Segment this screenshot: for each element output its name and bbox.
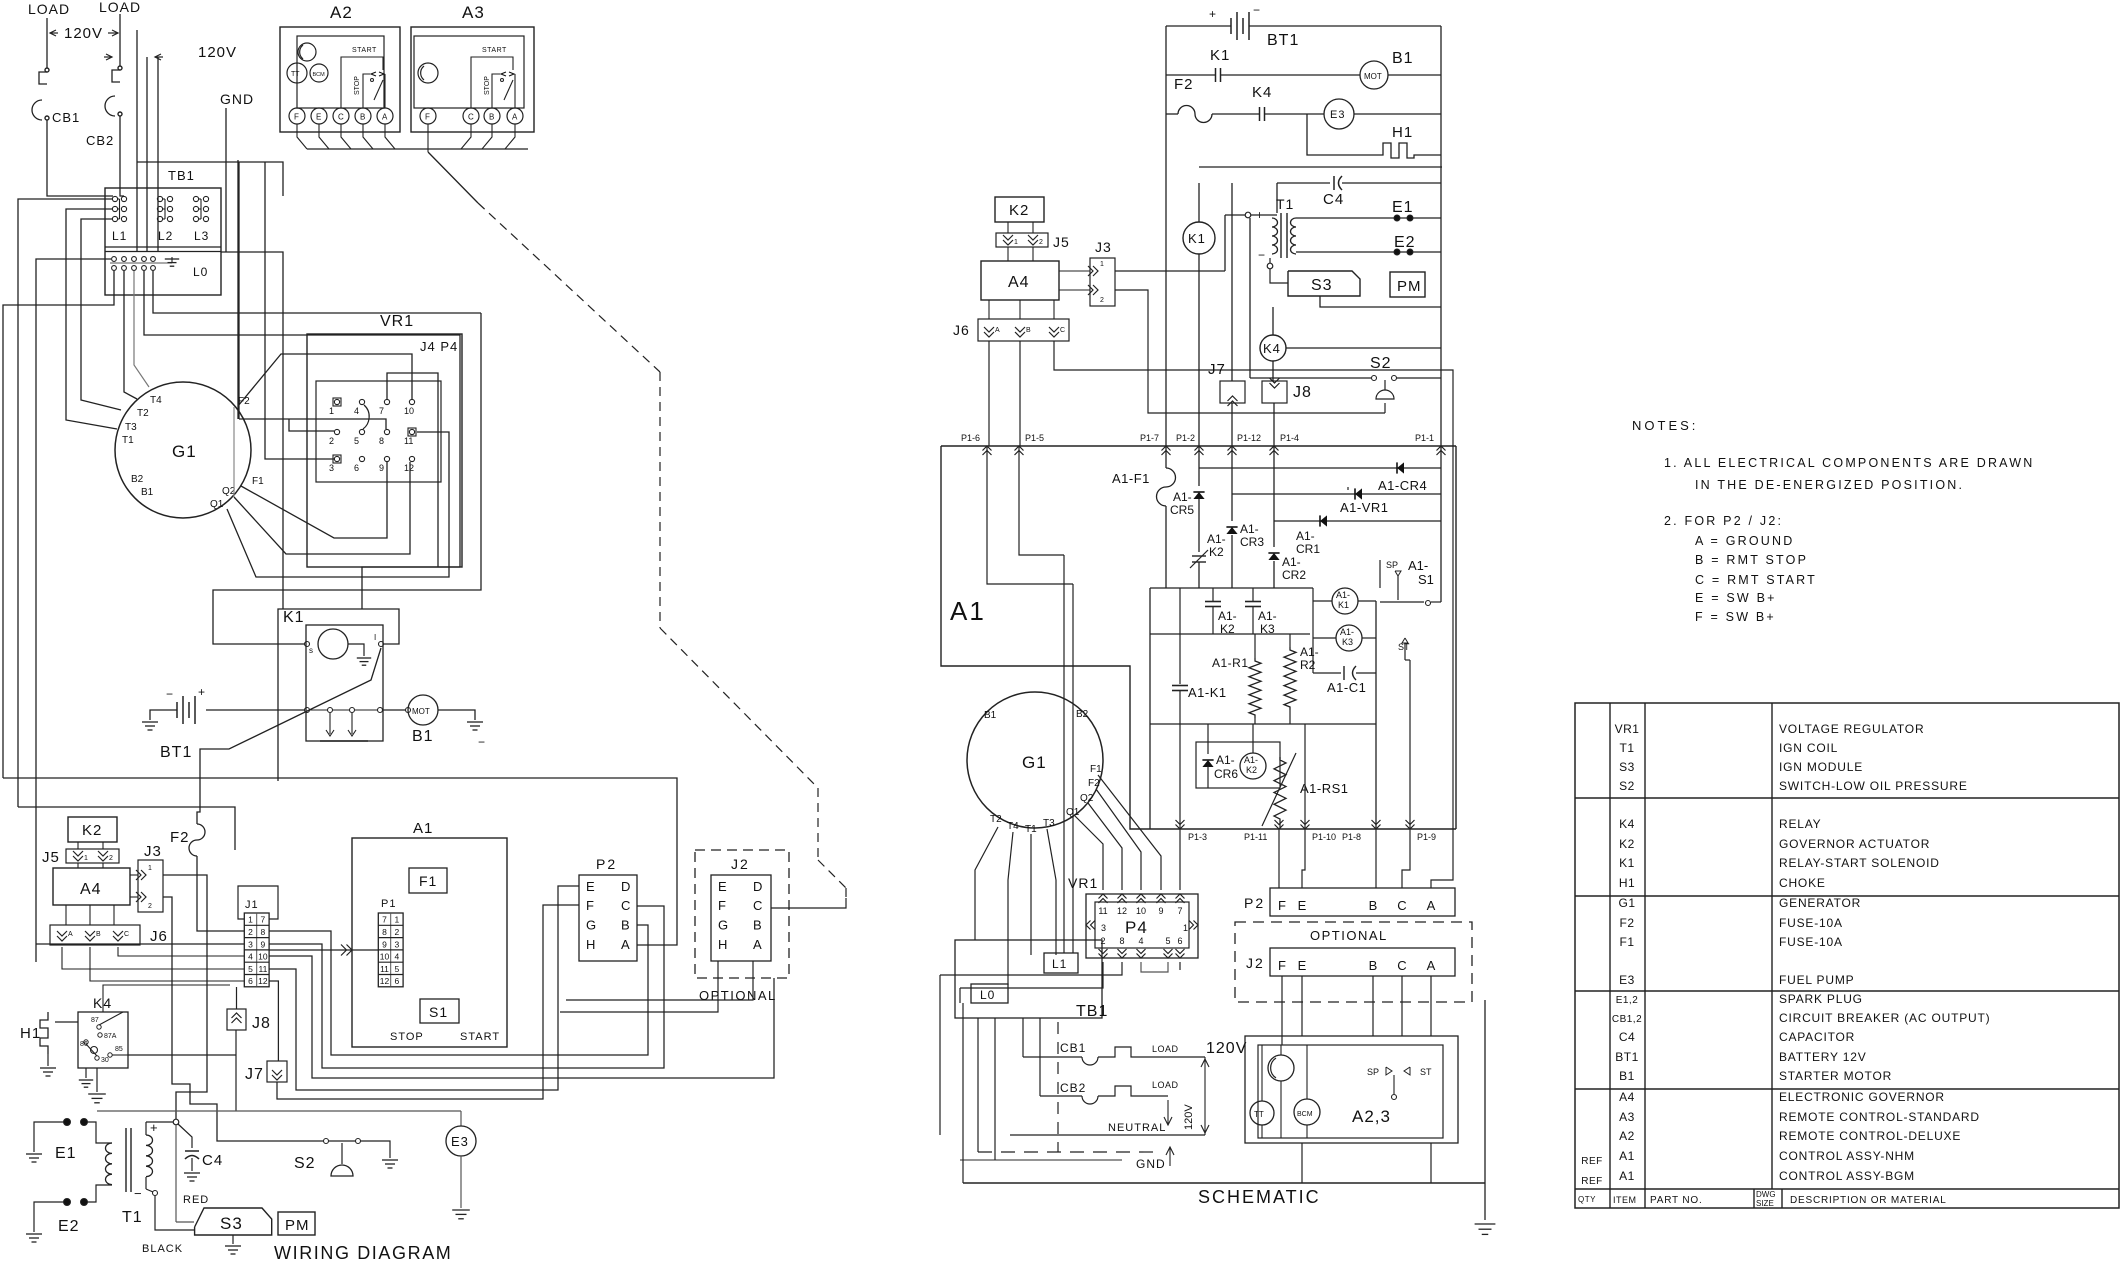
svg-text:C4: C4 xyxy=(202,1152,223,1169)
svg-text:J2: J2 xyxy=(731,856,750,872)
svg-text:5: 5 xyxy=(1165,936,1170,946)
svg-text:11: 11 xyxy=(404,436,413,446)
svg-text:B1: B1 xyxy=(984,710,997,721)
svg-text:10: 10 xyxy=(1136,906,1146,916)
svg-text:A1-F1: A1-F1 xyxy=(1112,471,1150,486)
svg-text:T1: T1 xyxy=(122,1209,143,1226)
svg-text:CB1: CB1 xyxy=(1060,1041,1086,1055)
svg-text:120V: 120V xyxy=(198,44,237,61)
svg-text:T3: T3 xyxy=(1043,818,1055,829)
svg-text:CR6: CR6 xyxy=(1214,767,1238,781)
svg-text:BCM: BCM xyxy=(1297,1111,1313,1118)
svg-text:GOVERNOR ACTUATOR: GOVERNOR ACTUATOR xyxy=(1779,837,1930,851)
svg-text:K1: K1 xyxy=(1619,856,1635,870)
svg-text:T1: T1 xyxy=(122,435,134,446)
svg-text:J6: J6 xyxy=(953,322,970,338)
svg-text:PM: PM xyxy=(285,1217,310,1234)
svg-text:VOLTAGE REGULATOR: VOLTAGE REGULATOR xyxy=(1779,722,1924,736)
svg-text:F2: F2 xyxy=(238,396,250,407)
svg-text:L0: L0 xyxy=(193,265,208,279)
svg-text:P1-2: P1-2 xyxy=(1176,433,1195,443)
svg-text:A1-: A1- xyxy=(1282,555,1301,569)
svg-text:H: H xyxy=(586,937,595,952)
svg-text:1. ALL ELECTRICAL COMPONENTS: 1. ALL ELECTRICAL COMPONENTS ARE DRAWN xyxy=(1664,456,2034,470)
svg-text:START: START xyxy=(482,47,507,54)
svg-text:1: 1 xyxy=(1183,923,1188,933)
svg-text:−: − xyxy=(134,1186,142,1201)
svg-text:P2: P2 xyxy=(1244,895,1265,911)
svg-text:IGN COIL: IGN COIL xyxy=(1779,741,1838,755)
svg-text:TT: TT xyxy=(291,71,300,78)
svg-text:P1-12: P1-12 xyxy=(1237,433,1261,443)
svg-text:SP: SP xyxy=(1367,1067,1379,1077)
svg-text:SPARK PLUG: SPARK PLUG xyxy=(1779,992,1863,1006)
svg-text:A2: A2 xyxy=(1619,1129,1635,1143)
svg-text:A1-: A1- xyxy=(1207,532,1226,546)
svg-text:Q1: Q1 xyxy=(1066,807,1080,818)
svg-text:LOAD: LOAD xyxy=(28,1,70,17)
svg-text:87: 87 xyxy=(91,1017,99,1024)
svg-text:LOAD: LOAD xyxy=(99,0,141,15)
svg-text:2: 2 xyxy=(1039,239,1043,246)
svg-text:12: 12 xyxy=(258,976,268,986)
svg-text:F2: F2 xyxy=(1619,916,1634,930)
svg-text:7: 7 xyxy=(261,915,266,925)
svg-text:T4: T4 xyxy=(1007,821,1019,832)
svg-text:GND: GND xyxy=(220,91,254,107)
svg-text:A1-: A1- xyxy=(1300,645,1319,659)
svg-text:A1: A1 xyxy=(1619,1169,1635,1183)
svg-text:BT1: BT1 xyxy=(160,744,192,761)
svg-text:C: C xyxy=(124,931,129,938)
svg-text:GND: GND xyxy=(1136,1157,1166,1171)
svg-text:9: 9 xyxy=(379,463,384,473)
svg-text:F1: F1 xyxy=(1619,935,1634,949)
svg-text:START: START xyxy=(352,47,377,54)
svg-text:B1: B1 xyxy=(412,728,434,745)
svg-text:2: 2 xyxy=(1100,936,1105,946)
svg-text:F1: F1 xyxy=(1090,764,1102,775)
svg-text:E = SW B+: E = SW B+ xyxy=(1695,591,1777,605)
svg-text:10: 10 xyxy=(258,952,268,962)
svg-text:VR1: VR1 xyxy=(380,313,414,330)
svg-text:SCHEMATIC: SCHEMATIC xyxy=(1198,1187,1321,1207)
svg-text:C: C xyxy=(1060,327,1065,334)
svg-text:B: B xyxy=(360,113,365,122)
svg-text:CR1: CR1 xyxy=(1296,542,1320,556)
svg-text:B: B xyxy=(753,918,762,933)
svg-text:BATTERY 12V: BATTERY 12V xyxy=(1779,1050,1867,1064)
svg-text:A: A xyxy=(512,113,518,122)
svg-text:S2: S2 xyxy=(1370,355,1392,372)
svg-text:F2: F2 xyxy=(1088,778,1100,789)
svg-text:L1: L1 xyxy=(112,229,127,243)
svg-text:BLACK: BLACK xyxy=(142,1243,183,1255)
svg-text:A1-: A1- xyxy=(1240,522,1259,536)
svg-text:6: 6 xyxy=(395,976,400,986)
svg-text:BCM: BCM xyxy=(313,72,326,78)
svg-text:ST: ST xyxy=(1420,1067,1432,1077)
svg-text:1: 1 xyxy=(329,406,334,416)
svg-text:A1-C1: A1-C1 xyxy=(1327,680,1366,695)
svg-text:G: G xyxy=(718,918,728,933)
svg-text:T2: T2 xyxy=(137,408,149,419)
svg-text:CR3: CR3 xyxy=(1240,535,1264,549)
svg-text:J4 P4: J4 P4 xyxy=(420,339,458,354)
svg-text:K1: K1 xyxy=(1338,600,1349,610)
svg-text:4: 4 xyxy=(1138,936,1143,946)
svg-text:E1: E1 xyxy=(55,1145,77,1162)
svg-text:F2: F2 xyxy=(170,829,190,846)
svg-text:+: + xyxy=(198,685,205,699)
svg-text:1: 1 xyxy=(395,915,400,925)
svg-text:12: 12 xyxy=(404,463,414,473)
svg-text:C4: C4 xyxy=(1323,191,1344,208)
svg-text:H1: H1 xyxy=(20,1025,41,1042)
svg-text:J8: J8 xyxy=(1293,384,1312,401)
svg-text:L1: L1 xyxy=(1052,957,1067,971)
svg-text:9: 9 xyxy=(382,939,387,949)
svg-text:9: 9 xyxy=(1158,906,1163,916)
svg-text:5: 5 xyxy=(248,964,253,974)
svg-text:Q1: Q1 xyxy=(210,499,224,510)
svg-text:A1-RS1: A1-RS1 xyxy=(1300,781,1349,796)
svg-text:P1-9: P1-9 xyxy=(1417,832,1436,842)
svg-text:FUSE-10A: FUSE-10A xyxy=(1779,916,1843,930)
svg-text:E: E xyxy=(1298,958,1307,973)
svg-text:R2: R2 xyxy=(1300,658,1316,672)
svg-text:1: 1 xyxy=(84,855,88,862)
svg-text:11: 11 xyxy=(258,964,267,974)
svg-text:K2: K2 xyxy=(1246,765,1257,775)
svg-text:SIZE: SIZE xyxy=(1756,1199,1774,1208)
svg-text:SP: SP xyxy=(1386,560,1398,570)
svg-text:P4: P4 xyxy=(1125,918,1148,937)
svg-text:E: E xyxy=(316,113,321,122)
svg-text:+: + xyxy=(1209,7,1216,21)
svg-text:1: 1 xyxy=(1100,261,1104,268)
svg-text:4: 4 xyxy=(395,952,400,962)
svg-text:A = GROUND: A = GROUND xyxy=(1695,534,1794,548)
svg-text:CR2: CR2 xyxy=(1282,568,1306,582)
svg-text:C = RMT START: C = RMT START xyxy=(1695,573,1817,587)
svg-text:F: F xyxy=(718,898,726,913)
svg-text:9: 9 xyxy=(261,939,266,949)
svg-text:START: START xyxy=(460,1031,500,1043)
svg-text:K1: K1 xyxy=(283,609,305,626)
svg-text:CB1: CB1 xyxy=(52,110,80,125)
svg-text:B: B xyxy=(96,931,101,938)
svg-text:STOP: STOP xyxy=(484,76,491,95)
svg-text:S3: S3 xyxy=(1311,277,1333,294)
svg-text:7: 7 xyxy=(379,406,384,416)
svg-text:T1: T1 xyxy=(1276,196,1294,212)
svg-text:10: 10 xyxy=(404,406,414,416)
svg-text:VR1: VR1 xyxy=(1615,722,1640,736)
svg-text:−: − xyxy=(1258,248,1265,262)
svg-text:1: 1 xyxy=(148,865,152,872)
svg-text:S1: S1 xyxy=(1418,572,1434,587)
svg-text:F2: F2 xyxy=(1174,76,1194,93)
svg-text:P1-5: P1-5 xyxy=(1025,433,1044,443)
svg-text:J7: J7 xyxy=(1208,361,1226,378)
svg-text:A1-VR1: A1-VR1 xyxy=(1340,500,1389,515)
svg-text:F: F xyxy=(425,113,430,122)
svg-text:QTY: QTY xyxy=(1578,1195,1596,1204)
svg-text:2: 2 xyxy=(248,927,253,937)
svg-text:A1: A1 xyxy=(950,596,986,626)
svg-text:B1: B1 xyxy=(141,487,154,498)
svg-text:STARTER MOTOR: STARTER MOTOR xyxy=(1779,1069,1892,1083)
svg-text:12: 12 xyxy=(1117,906,1127,916)
svg-text:K4: K4 xyxy=(1263,341,1281,356)
svg-text:1: 1 xyxy=(1014,239,1018,246)
svg-text:LOAD: LOAD xyxy=(1152,1044,1179,1054)
svg-text:H1: H1 xyxy=(1619,876,1635,890)
svg-text:A1-: A1- xyxy=(1340,627,1354,637)
svg-text:I: I xyxy=(374,633,376,642)
svg-text:A4: A4 xyxy=(1008,274,1030,291)
svg-text:C: C xyxy=(1397,958,1406,973)
svg-text:J5: J5 xyxy=(42,849,60,866)
svg-text:A1-: A1- xyxy=(1296,529,1315,543)
svg-text:6: 6 xyxy=(248,976,253,986)
svg-text:J8: J8 xyxy=(252,1015,271,1032)
svg-text:E1: E1 xyxy=(1392,199,1414,216)
svg-text:REMOTE CONTROL-DELUXE: REMOTE CONTROL-DELUXE xyxy=(1779,1129,1961,1143)
svg-text:4: 4 xyxy=(354,406,359,416)
svg-text:B = RMT STOP: B = RMT STOP xyxy=(1695,553,1808,567)
svg-text:L0: L0 xyxy=(980,988,995,1002)
svg-text:J3: J3 xyxy=(144,843,162,860)
svg-text:S2: S2 xyxy=(1619,779,1635,793)
svg-text:6: 6 xyxy=(1177,936,1182,946)
svg-text:DESCRIPTION OR MATERIAL: DESCRIPTION OR MATERIAL xyxy=(1790,1195,1947,1206)
svg-text:OPTIONAL: OPTIONAL xyxy=(1310,928,1388,943)
svg-text:CR5: CR5 xyxy=(1170,503,1194,517)
svg-text:K2: K2 xyxy=(1209,545,1224,559)
svg-text:B1: B1 xyxy=(1619,1069,1635,1083)
svg-text:E: E xyxy=(1298,898,1307,913)
svg-text:ELECTRONIC GOVERNOR: ELECTRONIC GOVERNOR xyxy=(1779,1090,1945,1104)
svg-text:A1-: A1- xyxy=(1408,558,1428,573)
svg-text:A1-R1: A1-R1 xyxy=(1212,656,1249,670)
svg-text:L2: L2 xyxy=(158,229,173,243)
svg-text:3: 3 xyxy=(395,939,400,949)
svg-text:T4: T4 xyxy=(150,395,162,406)
svg-text:A: A xyxy=(995,327,1000,334)
svg-text:K2: K2 xyxy=(1009,202,1029,219)
svg-text:CB2: CB2 xyxy=(86,133,114,148)
svg-text:7: 7 xyxy=(382,915,387,925)
svg-text:P1-4: P1-4 xyxy=(1280,433,1299,443)
svg-text:A1-: A1- xyxy=(1218,609,1237,623)
svg-text:B2: B2 xyxy=(131,474,144,485)
svg-text:P1-10: P1-10 xyxy=(1312,832,1336,842)
svg-text:RELAY: RELAY xyxy=(1779,817,1821,831)
svg-text:A: A xyxy=(382,113,388,122)
svg-text:7: 7 xyxy=(1177,906,1182,916)
svg-text:A1-CR4: A1-CR4 xyxy=(1378,478,1427,493)
svg-text:CB2: CB2 xyxy=(1060,1081,1086,1095)
svg-text:3: 3 xyxy=(248,939,253,949)
svg-text:TT: TT xyxy=(1254,1110,1264,1119)
svg-text:B2: B2 xyxy=(1076,709,1089,720)
svg-text:J2: J2 xyxy=(1246,955,1265,971)
svg-text:P1-11: P1-11 xyxy=(1244,832,1267,842)
svg-text:8: 8 xyxy=(1119,936,1124,946)
svg-text:C: C xyxy=(468,113,474,122)
svg-text:2: 2 xyxy=(329,436,334,446)
svg-text:F1: F1 xyxy=(419,873,437,889)
svg-text:S1: S1 xyxy=(429,1004,448,1020)
svg-text:VR1: VR1 xyxy=(1068,875,1098,891)
svg-text:CONTROL ASSY-NHM: CONTROL ASSY-NHM xyxy=(1779,1149,1915,1163)
svg-text:K4: K4 xyxy=(1619,817,1635,831)
svg-text:T1: T1 xyxy=(1025,824,1037,835)
svg-text:P1: P1 xyxy=(381,898,396,910)
svg-text:A1-: A1- xyxy=(1216,753,1235,767)
svg-text:F: F xyxy=(586,898,594,913)
svg-text:REMOTE CONTROL-STANDARD: REMOTE CONTROL-STANDARD xyxy=(1779,1110,1980,1124)
svg-text:P2: P2 xyxy=(596,856,617,872)
svg-text:11: 11 xyxy=(1098,906,1107,916)
svg-text:2: 2 xyxy=(109,855,113,862)
svg-text:F: F xyxy=(1278,898,1286,913)
svg-text:1: 1 xyxy=(248,915,253,925)
svg-text:A1-: A1- xyxy=(1336,590,1350,600)
svg-text:J1: J1 xyxy=(245,899,259,911)
svg-text:−: − xyxy=(478,735,485,749)
svg-text:A3: A3 xyxy=(1619,1110,1635,1124)
svg-text:FUEL PUMP: FUEL PUMP xyxy=(1779,973,1854,987)
svg-text:CHOKE: CHOKE xyxy=(1779,876,1826,890)
svg-text:6: 6 xyxy=(354,463,359,473)
svg-text:T1: T1 xyxy=(1619,741,1634,755)
svg-text:11: 11 xyxy=(380,964,389,974)
svg-text:CAPACITOR: CAPACITOR xyxy=(1779,1030,1855,1044)
svg-text:A4: A4 xyxy=(1619,1090,1635,1104)
svg-text:A1-: A1- xyxy=(1244,755,1258,765)
svg-text:A: A xyxy=(1427,958,1436,973)
svg-text:K1: K1 xyxy=(1188,231,1206,246)
svg-text:E3: E3 xyxy=(1619,973,1635,987)
svg-text:Q2: Q2 xyxy=(1080,793,1094,804)
svg-text:F: F xyxy=(294,113,299,122)
svg-text:12: 12 xyxy=(380,976,390,986)
svg-text:K2: K2 xyxy=(82,822,102,839)
svg-text:B: B xyxy=(1369,958,1378,973)
svg-text:2: 2 xyxy=(395,927,400,937)
svg-text:TB1: TB1 xyxy=(168,168,195,183)
svg-text:E3: E3 xyxy=(1330,109,1345,121)
svg-text:IN THE DE-ENERGIZED POSITION.: IN THE DE-ENERGIZED POSITION. xyxy=(1695,478,1964,492)
svg-text:C: C xyxy=(753,898,762,913)
svg-text:P1-8: P1-8 xyxy=(1342,832,1361,842)
svg-text:CB1,2: CB1,2 xyxy=(1612,1014,1642,1025)
svg-text:A3: A3 xyxy=(462,3,485,22)
svg-text:E1,2: E1,2 xyxy=(1616,995,1639,1006)
svg-text:A2: A2 xyxy=(330,3,353,22)
svg-text:B: B xyxy=(621,918,630,933)
svg-text:J6: J6 xyxy=(150,928,168,945)
svg-text:K2: K2 xyxy=(1619,837,1635,851)
svg-text:STOP: STOP xyxy=(354,76,361,95)
svg-text:IGN MODULE: IGN MODULE xyxy=(1779,760,1863,774)
svg-text:PART NO.: PART NO. xyxy=(1650,1195,1703,1206)
svg-text:5: 5 xyxy=(395,964,400,974)
svg-text:P1-3: P1-3 xyxy=(1188,832,1207,842)
svg-text:F = SW B+: F = SW B+ xyxy=(1695,610,1776,624)
svg-text:NEUTRAL: NEUTRAL xyxy=(1108,1122,1166,1134)
svg-text:85: 85 xyxy=(115,1046,123,1053)
svg-text:3: 3 xyxy=(1101,923,1106,933)
svg-text:NOTES:: NOTES: xyxy=(1632,418,1698,433)
svg-text:A1-: A1- xyxy=(1173,490,1192,504)
svg-text:A: A xyxy=(621,937,630,952)
svg-text:8: 8 xyxy=(382,927,387,937)
svg-text:J3: J3 xyxy=(1095,239,1112,255)
svg-text:P1-6: P1-6 xyxy=(961,433,980,443)
svg-text:J5: J5 xyxy=(1053,234,1070,250)
svg-text:A2,3: A2,3 xyxy=(1352,1107,1391,1126)
svg-text:RED: RED xyxy=(183,1194,209,1206)
svg-text:REF: REF xyxy=(1581,1176,1603,1187)
svg-text:MOT: MOT xyxy=(1364,72,1382,81)
svg-text:A1: A1 xyxy=(1619,1149,1635,1163)
svg-text:2: 2 xyxy=(148,903,152,910)
svg-text:A: A xyxy=(1427,898,1436,913)
svg-text:CONTROL ASSY-BGM: CONTROL ASSY-BGM xyxy=(1779,1169,1915,1183)
svg-text:B: B xyxy=(489,113,494,122)
svg-text:STOP: STOP xyxy=(390,1031,424,1043)
svg-text:A: A xyxy=(68,931,73,938)
svg-text:G1: G1 xyxy=(1618,896,1635,910)
svg-text:−: − xyxy=(166,687,173,701)
svg-text:FUSE-10A: FUSE-10A xyxy=(1779,935,1843,949)
svg-text:ITEM: ITEM xyxy=(1613,1195,1637,1205)
svg-text:−: − xyxy=(1253,3,1260,17)
svg-text:BT1: BT1 xyxy=(1615,1050,1639,1064)
svg-text:SWITCH-LOW OIL PRESSURE: SWITCH-LOW OIL PRESSURE xyxy=(1779,779,1968,793)
svg-text:E3: E3 xyxy=(451,1134,469,1149)
svg-text:BT1: BT1 xyxy=(1267,32,1299,49)
svg-text:87A: 87A xyxy=(104,1033,117,1040)
svg-text:T2: T2 xyxy=(990,814,1002,825)
svg-text:C4: C4 xyxy=(1619,1030,1635,1044)
svg-text:F1: F1 xyxy=(252,476,264,487)
svg-text:TB1: TB1 xyxy=(1076,1003,1108,1020)
svg-text:10: 10 xyxy=(380,952,390,962)
svg-text:F: F xyxy=(1278,958,1286,973)
svg-text:K3: K3 xyxy=(1342,637,1353,647)
svg-text:T3: T3 xyxy=(125,422,137,433)
svg-text:G: G xyxy=(586,918,596,933)
svg-text:E: E xyxy=(586,879,595,894)
svg-text:B1: B1 xyxy=(1392,50,1414,67)
svg-text:MOT: MOT xyxy=(412,707,430,716)
svg-text:S3: S3 xyxy=(220,1214,243,1233)
svg-text:E2: E2 xyxy=(1394,234,1416,251)
svg-text:K4: K4 xyxy=(1252,84,1272,101)
svg-text:A1: A1 xyxy=(413,820,433,837)
svg-text:A4: A4 xyxy=(80,881,102,898)
svg-text:120V: 120V xyxy=(1183,1104,1195,1130)
svg-text:2: 2 xyxy=(1100,297,1104,304)
svg-text:H1: H1 xyxy=(1392,124,1413,141)
svg-text:DWG: DWG xyxy=(1756,1190,1776,1199)
svg-text:LOAD: LOAD xyxy=(1152,1080,1179,1090)
